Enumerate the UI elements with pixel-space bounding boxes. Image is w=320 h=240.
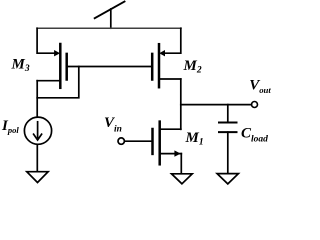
wire M2 source from rail	[165, 28, 181, 53]
transistor M2	[152, 44, 181, 87]
ground under Ipol	[27, 172, 48, 183]
wire Ipol to ground	[36, 144, 38, 171]
ground under Cload	[217, 174, 238, 184]
transistor M1	[153, 122, 182, 165]
wire VDD rail	[37, 27, 181, 29]
wire diode connection gate to drain of M3	[37, 67, 79, 98]
current source Ipol	[24, 117, 51, 144]
terminal Vout	[252, 102, 258, 108]
transistor M3	[37, 44, 66, 88]
wire output line	[181, 104, 252, 106]
supply slash symbol	[95, 2, 125, 29]
capacitor Cload	[219, 105, 237, 173]
wire M2 drain vertical to output node	[180, 79, 182, 129]
wire gate line M3-M2	[67, 66, 153, 68]
terminal Vin	[118, 138, 124, 144]
wire M3 source from rail	[37, 28, 54, 53]
wire M1 source to ground	[180, 154, 182, 174]
ground under M1	[172, 174, 193, 184]
wire M3 drain down to Ipol	[36, 81, 38, 117]
wire Vin to gate of M1	[125, 140, 153, 142]
